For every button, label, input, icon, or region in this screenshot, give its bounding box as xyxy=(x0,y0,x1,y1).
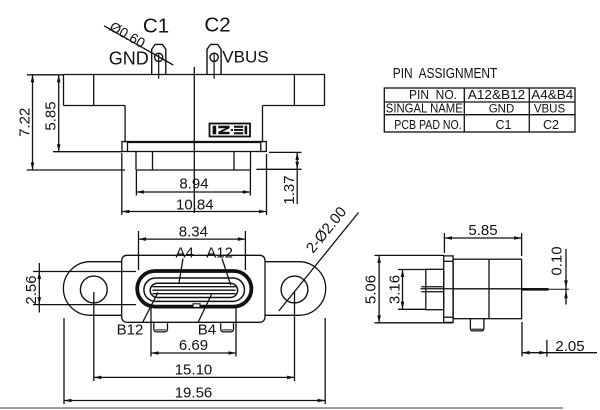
bottom border remnant xyxy=(0,407,563,409)
side view rear pins xyxy=(421,286,443,288)
leader A4 xyxy=(179,259,183,285)
dim 2.05 xyxy=(521,322,523,357)
dim 7.22 xyxy=(27,74,64,76)
dim 8.34 xyxy=(138,231,140,270)
svg-text:3.16: 3.16 xyxy=(387,275,404,304)
svg-text:VBUS: VBUS xyxy=(222,48,268,67)
dim 8.94 xyxy=(135,170,137,196)
pin C1 tab xyxy=(152,44,166,74)
top view left shoulder xyxy=(64,105,126,107)
svg-text:SINGAL NAME: SINGAL NAME xyxy=(386,101,463,115)
dim 5.06 xyxy=(375,254,445,256)
receptacle inner ring xyxy=(144,278,245,301)
leader A12 xyxy=(222,259,231,286)
foot right xyxy=(221,323,234,332)
top view lower tier xyxy=(135,152,137,171)
side view flange xyxy=(444,256,453,323)
pin C1 center lead xyxy=(158,54,160,79)
leader dia 0.60 xyxy=(104,26,173,65)
foot left xyxy=(154,323,168,332)
dim 5.85 top view xyxy=(53,151,122,153)
leader B12 xyxy=(143,292,158,322)
svg-text:A12&B12: A12&B12 xyxy=(468,88,526,102)
side view lead xyxy=(522,288,549,291)
dim 19.56 xyxy=(63,318,65,404)
top view centerline xyxy=(193,67,195,213)
svg-text:PIN ASSIGNMENT: PIN ASSIGNMENT xyxy=(393,65,498,82)
dim 5.85 side xyxy=(443,233,445,253)
svg-text:C2: C2 xyxy=(543,118,559,132)
shell bottom notch xyxy=(193,304,200,308)
pin C2 center lead xyxy=(213,54,215,79)
right mounting hole xyxy=(281,276,308,303)
dim 3.16 xyxy=(398,269,426,271)
front view central block xyxy=(122,255,265,322)
leader B4 xyxy=(198,295,212,323)
svg-text:B4: B4 xyxy=(198,322,216,339)
top view right shoulder xyxy=(263,105,325,107)
svg-text:19.56: 19.56 xyxy=(175,385,213,402)
dim 2.56 xyxy=(33,271,136,273)
top view ear divider left xyxy=(93,75,95,106)
svg-text:8.34: 8.34 xyxy=(179,223,208,240)
svg-text:7.22: 7.22 xyxy=(17,108,34,137)
svg-text:PCB PAD NO.: PCB PAD NO. xyxy=(394,118,462,132)
svg-text:PIN NO.: PIN NO. xyxy=(409,88,457,102)
svg-text:A4&B4: A4&B4 xyxy=(531,88,573,102)
dim 0.10 xyxy=(565,249,567,305)
svg-text:5.85: 5.85 xyxy=(468,222,497,239)
svg-text:A12: A12 xyxy=(206,245,233,262)
svg-text:8.94: 8.94 xyxy=(179,176,208,193)
front view mounting ears xyxy=(63,262,325,316)
dim 1.37 xyxy=(269,151,302,153)
dim 10.84 xyxy=(121,153,123,215)
pin C2 tab xyxy=(207,44,221,74)
side view back housing xyxy=(426,269,444,309)
side view bottom peg xyxy=(470,319,484,331)
svg-text:1.37: 1.37 xyxy=(281,175,298,204)
svg-text:A4: A4 xyxy=(176,245,194,262)
svg-text:GND: GND xyxy=(489,103,515,115)
svg-text:C1: C1 xyxy=(496,118,512,132)
receptacle shell outer band xyxy=(137,271,251,307)
manufacturer logo xyxy=(210,124,251,137)
svg-text:B12: B12 xyxy=(117,321,144,338)
pin assignment table xyxy=(384,88,575,132)
top view front bar (shield) xyxy=(122,142,266,152)
tongue xyxy=(150,283,237,297)
top view body outline xyxy=(64,75,325,106)
svg-text:2.56: 2.56 xyxy=(23,275,40,304)
svg-text:GND: GND xyxy=(109,49,149,69)
svg-text:C2: C2 xyxy=(204,14,230,37)
leader 2-dia2.00 xyxy=(279,213,359,312)
dim 6.69 xyxy=(150,308,152,357)
svg-text:C1: C1 xyxy=(143,15,169,38)
svg-text:VBUS: VBUS xyxy=(534,103,566,115)
svg-text:2.05: 2.05 xyxy=(555,338,584,355)
side view main body xyxy=(453,259,521,319)
svg-text:2-Ø2.00: 2-Ø2.00 xyxy=(303,204,350,257)
svg-text:6.69: 6.69 xyxy=(179,337,208,354)
svg-text:5.06: 5.06 xyxy=(363,275,380,304)
svg-text:5.85: 5.85 xyxy=(43,101,60,130)
svg-text:10.84: 10.84 xyxy=(176,196,214,213)
svg-text:15.10: 15.10 xyxy=(175,361,213,378)
dim 15.10 xyxy=(93,292,95,381)
svg-text:0.10: 0.10 xyxy=(549,246,566,275)
left mounting hole xyxy=(80,276,107,303)
top view ear divider right xyxy=(293,75,295,106)
